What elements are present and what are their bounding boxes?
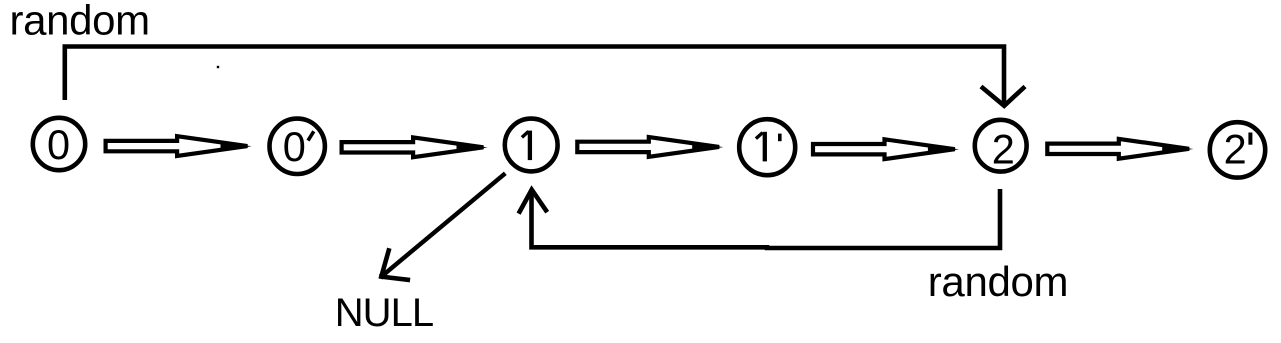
wire: bottom random pointer from node 2 down, left, up into node 1 [532, 189, 1001, 248]
svg-text:0: 0 [283, 123, 306, 170]
stray dot artifact [217, 66, 219, 68]
arrow next: 0 to 0' [106, 136, 252, 156]
node 1 [505, 119, 558, 172]
svg-text:NULL: NULL [335, 291, 433, 335]
label NULL [335, 291, 433, 335]
label random (bottom-right) [928, 258, 1068, 305]
wire: arrow from node 1 down-left to NULL [382, 173, 505, 276]
node 0 [33, 118, 85, 170]
arrowhead: up into node 1 [519, 190, 548, 214]
node 2' [1210, 122, 1265, 177]
wire: top random pointer from node 0 up, right, down to node 2 [65, 47, 1004, 104]
svg-text:0: 0 [47, 121, 70, 168]
arrow next: 2 to 2' [1047, 139, 1193, 159]
node 0' [270, 119, 325, 174]
node 2 [975, 120, 1027, 173]
arrow next: 1 to 1' [577, 137, 723, 157]
arrow next: 1' to 2 [813, 139, 959, 159]
node 1' [739, 119, 795, 175]
arrowhead: NULL arrow open head [381, 251, 408, 280]
svg-text:2: 2 [1224, 126, 1247, 173]
svg-text:random: random [928, 258, 1068, 305]
arrow next: 0' to 1 [342, 137, 488, 157]
label random (top-left) [10, 0, 150, 44]
svg-text:random: random [10, 0, 150, 44]
arrowhead: down into node 2 [981, 87, 1025, 106]
svg-text:2: 2 [992, 125, 1015, 172]
